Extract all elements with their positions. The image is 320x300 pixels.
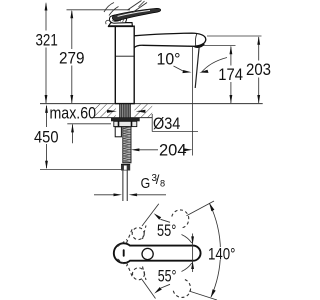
dimension 174 line — [230, 47, 232, 104]
ghost raised lever stroke 1 — [128, 1, 142, 11]
svg-text:10°: 10° — [157, 50, 181, 68]
svg-text:55°: 55° — [157, 222, 176, 240]
hole diameter callout — [151, 114, 153, 132]
upper ghost lever tip — [172, 210, 189, 228]
countertop section bottom line — [94, 117, 152, 119]
450 bottom reference line — [40, 169, 121, 171]
washer under counter — [111, 118, 140, 121]
G 3/8 dimension arrows — [94, 194, 114, 196]
svg-text:G: G — [141, 175, 151, 192]
label 140 — [207, 247, 238, 260]
lower 55 arrow — [154, 287, 162, 294]
140 arc top arrow — [209, 203, 214, 211]
upper ghost lever circle — [132, 228, 144, 240]
svg-text:140°: 140° — [208, 245, 236, 263]
10 deg right arc + arrow — [202, 58, 228, 73]
countertop max-thickness bottom line — [67, 123, 111, 125]
rest-position vertical line through pill — [192, 234, 194, 273]
svg-text:450: 450 — [34, 128, 59, 146]
fixing bolt — [115, 127, 121, 137]
upper ghost lever edges — [127, 227, 134, 243]
column joint line — [115, 55, 134, 57]
outlet reference line — [194, 45, 236, 47]
lower ghost lever tip — [173, 279, 190, 297]
svg-text:max.60: max.60 — [50, 105, 97, 123]
dimension 279 line — [71, 11, 73, 103]
ghost raised lever stroke 3 — [139, 1, 145, 7]
140 arc bottom arrow — [211, 289, 216, 298]
svg-text:279: 279 — [59, 50, 85, 68]
lower ghost lever edges — [127, 263, 134, 279]
svg-text:55°: 55° — [158, 268, 177, 286]
dimension 321 line — [45, 4, 47, 104]
mounting hole arrow left — [107, 110, 117, 113]
outlet vertical reference line — [192, 47, 194, 156]
dimension 450 line — [46, 106, 48, 168]
faucet head cap — [109, 23, 133, 27]
hose hex nut — [121, 165, 130, 171]
countertop top line — [40, 103, 263, 105]
upper 55 connector arc — [182, 235, 192, 244]
lever motion arc 1 — [104, 3, 114, 13]
nose hook squiggle — [106, 20, 110, 24]
svg-text:321: 321 — [36, 32, 58, 50]
lower 55 axis line — [142, 280, 156, 299]
mounting hole arrow right — [136, 110, 146, 113]
faucet column — [115, 26, 134, 103]
svg-text:203: 203 — [246, 61, 271, 79]
pill slot mark — [123, 250, 125, 256]
upper 55 arrow — [154, 213, 162, 220]
lever pill top view grip — [114, 243, 201, 263]
svg-text:Ø34: Ø34 — [153, 115, 180, 133]
lever motion arc 2 — [109, 7, 119, 16]
140 deg lower extension line — [189, 291, 217, 300]
spout-top reference line — [207, 35, 262, 37]
140 deg upper extension line — [187, 201, 215, 216]
lever handle (rest position) — [112, 8, 160, 20]
spout end-cap line — [195, 34, 196, 46]
279 top reference line — [67, 9, 131, 11]
spout — [134, 33, 206, 48]
braided hose — [123, 127, 131, 163]
countertop hatched section right — [135, 104, 153, 118]
ghost raised lever stroke 2 — [133, 3, 148, 13]
mounting nut — [114, 121, 137, 126]
svg-text:174: 174 — [218, 66, 243, 84]
max.60 bottom arrow — [72, 125, 74, 144]
lower ghost lever circle — [133, 268, 145, 280]
dimension 203 line — [258, 37, 260, 103]
10 deg left leader + arrow — [174, 66, 186, 72]
threaded shank — [120, 104, 131, 118]
cartridge circle — [142, 248, 153, 259]
lever nose — [109, 15, 126, 23]
aerator outlet — [195, 44, 204, 47]
140 deg arc — [210, 204, 221, 298]
svg-text:8: 8 — [160, 178, 165, 188]
water stream — [195, 47, 199, 89]
svg-text:204: 204 — [159, 141, 187, 159]
dimension 204 — [139, 149, 159, 151]
upper 55 axis line — [142, 204, 159, 226]
countertop hatched section left — [94, 104, 116, 118]
supply pipe — [122, 171, 124, 202]
lower 55 connector arc — [182, 263, 192, 272]
